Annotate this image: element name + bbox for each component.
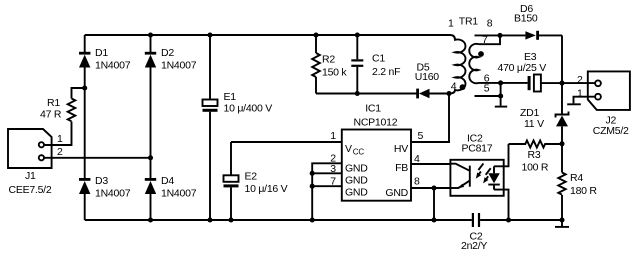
wire R1 branch [44, 88, 84, 145]
node rail / LED cathode [506, 217, 511, 222]
svg-text:10 μ/16 V: 10 μ/16 V [245, 183, 288, 195]
wire IC1 pin8 lead to IC2 emitter [411, 187, 450, 189]
svg-text:1N4007: 1N4007 [161, 60, 197, 72]
svg-text:2: 2 [57, 146, 63, 158]
svg-text:CZM5/2: CZM5/2 [593, 125, 629, 137]
svg-text:TR1: TR1 [459, 16, 478, 28]
wire top DC rail [85, 34, 450, 36]
resistor R3 [509, 141, 563, 174]
resistor R1 [40, 97, 75, 121]
node AC1 / R1 junction [82, 85, 87, 90]
wire output vertical [561, 35, 563, 220]
capacitor C2 [461, 213, 487, 252]
IC1 NCP1012 box [342, 103, 411, 201]
svg-text:2.2 nF: 2.2 nF [372, 66, 400, 78]
svg-text:R2: R2 [322, 54, 335, 66]
svg-text:2n2/Y: 2n2/Y [461, 240, 487, 252]
svg-text:1N4007: 1N4007 [95, 60, 131, 72]
resistor R4 [558, 172, 597, 197]
svg-text:8: 8 [487, 18, 493, 30]
svg-text:E2: E2 [245, 171, 258, 183]
transformer TR1 primary winding pins 1-4 [448, 18, 465, 94]
svg-text:J1: J1 [25, 170, 36, 182]
node GND stub rail [310, 217, 315, 222]
node bottom rail / R4 / ground [559, 217, 564, 222]
svg-text:IC1: IC1 [365, 103, 381, 115]
node pin5 junction [498, 93, 503, 98]
wire C1 column [356, 35, 358, 94]
svg-text:CC: CC [353, 148, 365, 157]
wire J2 pin2 lead [562, 82, 595, 84]
svg-text:1: 1 [57, 133, 63, 145]
wire LED cathode lead to rail [494, 190, 509, 220]
diode D1 [79, 47, 131, 72]
svg-text:5: 5 [484, 83, 490, 95]
node TR1 pin4 / D5 / HV junction [446, 91, 451, 96]
svg-text:HV: HV [394, 143, 408, 155]
ground secondary at TR1 [495, 83, 507, 107]
wire bottom rail secondary [480, 219, 562, 221]
wire IC1 GND pins 2,3,7 stub [312, 163, 342, 220]
svg-text:1: 1 [577, 88, 583, 100]
wire pin8 riser to rail [433, 188, 435, 220]
wire E2 column [230, 142, 232, 220]
svg-text:B150: B150 [514, 13, 538, 25]
svg-text:5: 5 [418, 130, 424, 142]
svg-text:150 k: 150 k [322, 67, 347, 79]
svg-text:D4: D4 [161, 175, 174, 187]
LED inside IC2 [488, 166, 500, 189]
svg-text:D1: D1 [95, 47, 108, 59]
node top rail / E1 [207, 32, 212, 37]
svg-text:11 V: 11 V [524, 118, 544, 130]
node bottom rail / E1 [207, 217, 212, 222]
capacitor E2 [224, 171, 288, 196]
svg-text:CEE7.5/2: CEE7.5/2 [9, 184, 52, 196]
svg-text:V: V [345, 143, 352, 155]
ground secondary bottom [555, 220, 569, 227]
svg-text:PC817: PC817 [462, 143, 493, 155]
wire D2-D4 column [150, 35, 152, 220]
ground at J2 pin1 [567, 103, 581, 105]
svg-text:47 R: 47 R [40, 109, 62, 121]
svg-text:180 R: 180 R [570, 185, 597, 197]
svg-text:FB: FB [395, 162, 408, 174]
svg-text:8: 8 [414, 176, 420, 188]
svg-text:GND: GND [345, 187, 368, 199]
zener diode ZD1 [520, 107, 569, 130]
wire R2 column [315, 35, 317, 94]
svg-text:R1: R1 [47, 97, 60, 109]
svg-text:GND: GND [345, 163, 368, 175]
svg-text:GND: GND [345, 175, 368, 187]
svg-text:D2: D2 [161, 47, 174, 59]
svg-text:470 μ/25 V: 470 μ/25 V [498, 62, 547, 74]
wire snubber line R2/C1 to D5 to TR1 pin4 [316, 93, 449, 95]
wire LED anode lead to R3 [494, 144, 509, 166]
node GND stub pin3 [310, 171, 315, 176]
wire HV riser to IC1 pin5 [411, 94, 449, 143]
svg-text:R3: R3 [528, 149, 541, 161]
diode D5 [415, 62, 440, 99]
wire J2 pin1 lead to ground [574, 97, 596, 104]
diode D6 [514, 3, 539, 40]
node pin8 / rail riser [431, 185, 436, 190]
wire bottom rail primary [85, 219, 472, 221]
capacitor C1 [351, 53, 400, 78]
node GND stub pin7 [310, 184, 315, 189]
resistor R2 [312, 53, 347, 79]
svg-text:1N4007: 1N4007 [161, 188, 197, 200]
wire TR1 pin7 lead joining pin8 [479, 35, 501, 44]
svg-text:E1: E1 [224, 91, 237, 103]
svg-text:100 R: 100 R [522, 162, 549, 174]
svg-text:1N4007: 1N4007 [95, 188, 131, 200]
node bottom rail / D4 junction [148, 217, 153, 222]
node top rail / D2 junction [148, 32, 153, 37]
svg-text:1: 1 [448, 18, 454, 30]
diode D2 [145, 47, 197, 72]
connector J1 [8, 129, 52, 196]
light arrows inside IC2 [476, 163, 491, 183]
wire TR1 pin6 lead [479, 82, 501, 84]
node top rail / R2 [313, 32, 318, 37]
node pin7/pin8 junction [497, 33, 502, 38]
transformer TR1 secondary winding pins 8-7-6-5 [469, 18, 493, 95]
transistor inside IC2 [450, 164, 469, 189]
svg-text:10 μ/400 V: 10 μ/400 V [224, 103, 273, 115]
connector J2 [588, 71, 630, 137]
wire TR1 pin5 lead [475, 95, 501, 97]
svg-text:C1: C1 [372, 53, 385, 65]
optocoupler IC2 PC817 [450, 133, 503, 196]
node output / E3 / J2 junction [559, 81, 564, 86]
svg-text:GND: GND [385, 187, 408, 199]
diode D4 [145, 175, 197, 200]
node AC2 junction [148, 155, 153, 160]
svg-text:1: 1 [330, 130, 336, 142]
svg-text:2: 2 [577, 74, 583, 86]
capacitor E3 [498, 51, 547, 92]
node top rail / C1 [355, 32, 360, 37]
svg-text:NCP1012: NCP1012 [354, 116, 398, 128]
capacitor E1 [203, 91, 273, 115]
wire D1-D3 column [84, 35, 86, 220]
node pin6 junction [498, 80, 503, 85]
diode D3 [79, 175, 131, 200]
svg-text:4: 4 [451, 81, 457, 93]
node ZD1 / R3 / R4 junction [559, 141, 564, 146]
svg-text:R4: R4 [570, 172, 583, 184]
node C1 bottom junction [355, 91, 360, 96]
wire IC1 VCC line from E2 [231, 141, 342, 143]
node bottom rail / E2 [228, 217, 233, 222]
wire output line through D6 [500, 34, 562, 36]
node rail / pin8 riser [431, 217, 436, 222]
wire TR1 pin8 lead [475, 34, 501, 36]
svg-text:U160: U160 [415, 71, 440, 83]
svg-text:D3: D3 [95, 175, 108, 187]
wire E3 line [501, 82, 562, 84]
wire AC2 from J1 pin2 to D2/D4 junction [44, 157, 150, 159]
wire IC1 FB lead to IC2 [411, 163, 450, 165]
wire E1 column [209, 35, 211, 220]
